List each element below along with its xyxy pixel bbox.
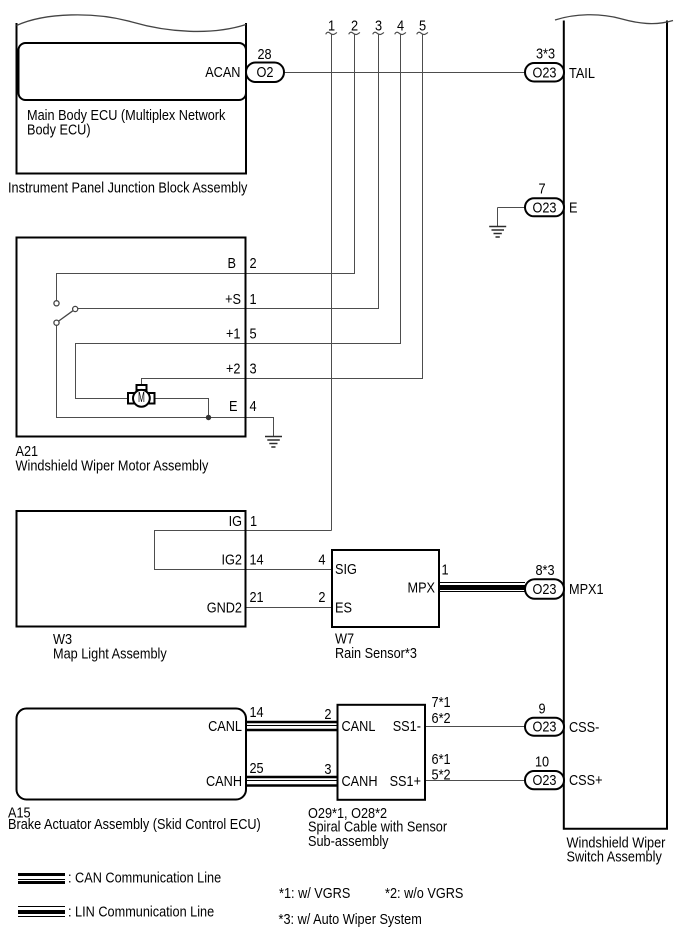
svg-text:5*2: 5*2 xyxy=(432,767,451,784)
svg-text:E: E xyxy=(229,398,238,415)
svg-text:TAIL: TAIL xyxy=(569,65,595,82)
svg-text:O23: O23 xyxy=(533,65,557,82)
svg-text:6*2: 6*2 xyxy=(432,710,451,727)
svg-text:10: 10 xyxy=(535,754,549,771)
svg-text:2: 2 xyxy=(318,589,325,606)
svg-text:CANL: CANL xyxy=(342,718,376,735)
svg-text:SIG: SIG xyxy=(335,561,357,578)
svg-text:1: 1 xyxy=(328,18,335,35)
svg-text:5: 5 xyxy=(250,326,257,343)
svg-text:Brake Actuator Assembly (Skid: Brake Actuator Assembly (Skid Control EC… xyxy=(8,816,261,833)
svg-text:O23: O23 xyxy=(533,200,557,217)
svg-text:3: 3 xyxy=(250,361,257,378)
svg-text:Rain Sensor*3: Rain Sensor*3 xyxy=(335,645,417,662)
svg-text:CSS+: CSS+ xyxy=(569,772,603,789)
svg-text:4: 4 xyxy=(250,398,257,415)
svg-text:O2: O2 xyxy=(257,64,274,81)
svg-text:CANH: CANH xyxy=(342,773,378,790)
svg-text:+2: +2 xyxy=(226,361,241,378)
svg-text:MPX1: MPX1 xyxy=(569,581,604,598)
svg-text:CSS-: CSS- xyxy=(569,719,599,736)
svg-text:14: 14 xyxy=(250,552,264,569)
svg-text:2: 2 xyxy=(250,255,257,272)
svg-text:8*3: 8*3 xyxy=(535,562,554,579)
svg-text:E: E xyxy=(569,200,578,217)
svg-text:+S: +S xyxy=(225,291,241,308)
svg-text:7: 7 xyxy=(538,181,545,198)
svg-text:5: 5 xyxy=(419,18,426,35)
svg-text:1: 1 xyxy=(442,562,449,579)
svg-text:21: 21 xyxy=(250,589,264,606)
svg-text:1: 1 xyxy=(250,513,257,530)
svg-text:M: M xyxy=(138,389,145,406)
svg-text:14: 14 xyxy=(250,704,264,721)
svg-text:Map Light Assembly: Map Light Assembly xyxy=(53,646,167,663)
svg-text:MPX: MPX xyxy=(408,580,436,597)
svg-text:1: 1 xyxy=(250,291,257,308)
svg-text:4: 4 xyxy=(318,552,325,569)
svg-text:3: 3 xyxy=(324,761,331,778)
svg-text:*1: w/ VGRS: *1: w/ VGRS xyxy=(279,885,350,902)
svg-text:+1: +1 xyxy=(226,326,241,343)
svg-text:: CAN Communication Line: : CAN Communication Line xyxy=(68,870,221,887)
svg-text:Sub-assembly: Sub-assembly xyxy=(308,833,389,850)
svg-text:IG: IG xyxy=(229,513,242,530)
svg-text:*3: w/ Auto Wiper System: *3: w/ Auto Wiper System xyxy=(279,911,422,928)
svg-text:GND2: GND2 xyxy=(207,600,242,617)
svg-text:4: 4 xyxy=(397,18,404,35)
svg-text:Body ECU): Body ECU) xyxy=(27,122,91,139)
svg-text:CANH: CANH xyxy=(206,773,242,790)
svg-text:7*1: 7*1 xyxy=(432,694,451,711)
svg-text:9: 9 xyxy=(538,701,545,718)
svg-text:Windshield Wiper Motor Assembl: Windshield Wiper Motor Assembly xyxy=(16,458,209,475)
svg-text:CANL: CANL xyxy=(208,718,242,735)
svg-text:SS1-: SS1- xyxy=(393,718,421,735)
svg-text:3*3: 3*3 xyxy=(536,46,555,63)
svg-text:B: B xyxy=(228,255,237,272)
svg-text:IG2: IG2 xyxy=(222,552,243,569)
svg-text:SS1+: SS1+ xyxy=(390,773,422,790)
svg-text:O23: O23 xyxy=(533,581,557,598)
svg-text:2: 2 xyxy=(351,18,358,35)
svg-text:2: 2 xyxy=(324,706,331,723)
svg-text:ACAN: ACAN xyxy=(205,64,240,81)
svg-text:*2: w/o VGRS: *2: w/o VGRS xyxy=(385,885,463,902)
svg-text:: LIN Communication Line: : LIN Communication Line xyxy=(68,904,214,921)
svg-text:25: 25 xyxy=(250,760,264,777)
svg-text:O23: O23 xyxy=(533,719,557,736)
svg-text:O23: O23 xyxy=(533,772,557,789)
svg-text:28: 28 xyxy=(257,46,271,63)
svg-text:3: 3 xyxy=(375,18,382,35)
svg-text:ES: ES xyxy=(335,600,352,617)
svg-text:Instrument Panel Junction Bloc: Instrument Panel Junction Block Assembly xyxy=(8,180,248,197)
svg-text:Switch Assembly: Switch Assembly xyxy=(567,849,663,866)
svg-text:6*1: 6*1 xyxy=(432,751,451,768)
